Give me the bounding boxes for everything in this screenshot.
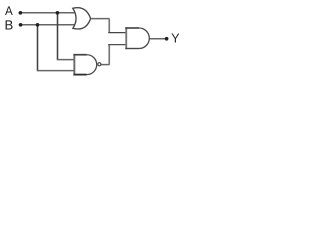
node dot input B terminal xyxy=(19,23,23,27)
node dot junction A to NAND xyxy=(56,11,60,15)
wire A vertical drop xyxy=(57,13,59,60)
node dot output Y terminal xyxy=(165,37,169,41)
wire to AND upper input xyxy=(108,32,126,34)
node dot junction B to NAND xyxy=(36,23,40,27)
and-gate U3 body fill xyxy=(126,28,149,49)
wire A horizontal xyxy=(19,12,76,14)
nand-gate U2 inversion bubble xyxy=(98,63,101,66)
and-gate U3 left edge xyxy=(125,27,127,49)
wire B horizontal xyxy=(19,24,75,26)
nand-gate U2 left edge xyxy=(73,54,75,75)
nand-gate U2 top edge xyxy=(73,54,86,56)
wire NAND output vertical xyxy=(108,45,110,65)
and-gate U3 bottom edge xyxy=(125,48,139,50)
nand-gate U2 bottom edge xyxy=(73,74,86,76)
node dot input A terminal xyxy=(19,11,23,15)
wire NAND output horizontal xyxy=(101,64,110,66)
wire A to NAND upper input xyxy=(57,59,75,61)
wire OR output vertical xyxy=(108,19,110,33)
or-gate U1 body fill xyxy=(73,8,91,29)
svg-text:A: A xyxy=(5,4,13,18)
wire B to NAND lower input xyxy=(37,70,75,72)
or-gate U1 outline xyxy=(73,8,91,29)
wire OR output horizontal xyxy=(91,18,110,20)
background xyxy=(0,0,182,79)
svg-text:B: B xyxy=(5,18,14,33)
wire to AND lower input xyxy=(108,44,126,46)
and-gate U3 arc xyxy=(139,28,149,49)
wire AND output to Y xyxy=(149,38,166,40)
nand-gate U2 body fill xyxy=(74,55,97,75)
and-gate U3 top edge xyxy=(125,27,139,29)
svg-text:Y: Y xyxy=(171,31,180,46)
wire B vertical drop xyxy=(37,25,39,71)
nand-gate U2 arc xyxy=(87,55,97,75)
